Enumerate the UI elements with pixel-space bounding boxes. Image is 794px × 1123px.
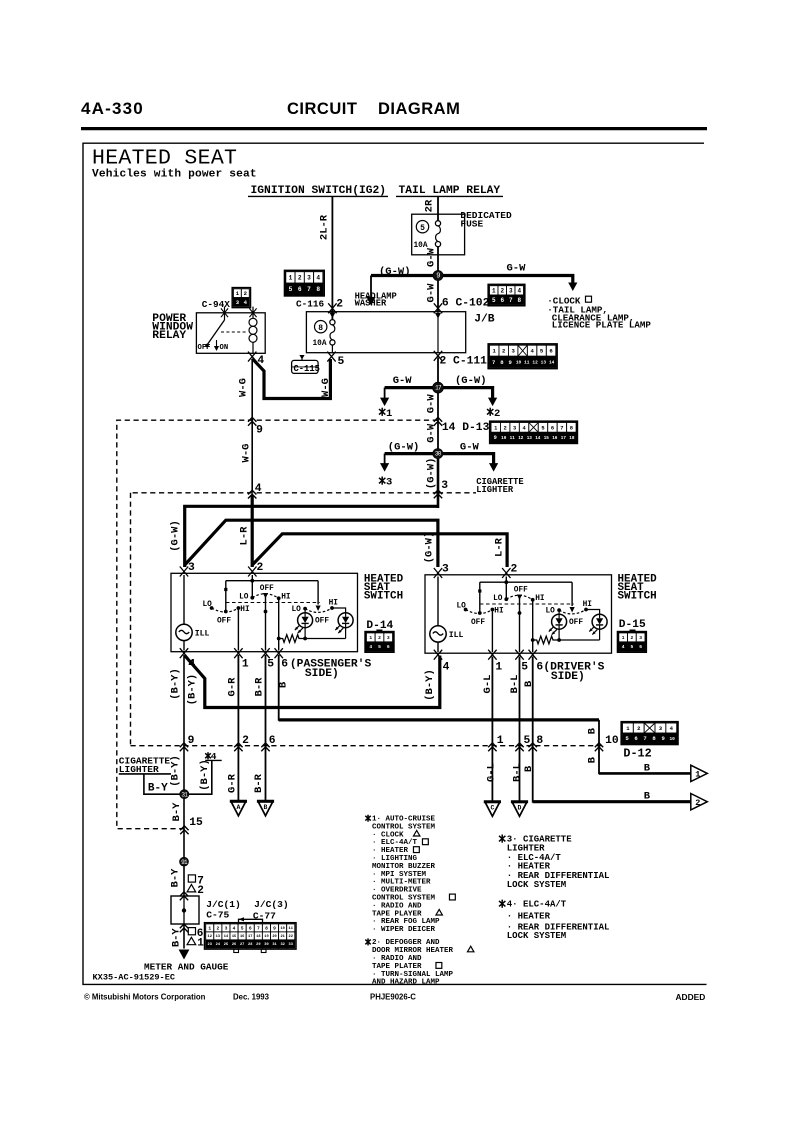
legend column 1 xyxy=(365,815,370,822)
connector C-75/C-77 pin grid xyxy=(205,923,297,949)
node 30 branch left *3 xyxy=(385,452,433,455)
connector D-14 pin grid xyxy=(376,630,382,633)
svg-text:5: 5 xyxy=(289,286,293,293)
svg-text:1: 1 xyxy=(386,408,392,420)
svg-text:15: 15 xyxy=(544,436,550,441)
svg-text:· RADIO AND: · RADIO AND xyxy=(372,955,422,963)
diagram frame xyxy=(83,143,707,984)
wire G-W node17 to node30 xyxy=(437,393,439,449)
svg-text:Vehicles with power seat: Vehicles with power seat xyxy=(92,169,257,181)
svg-text:5: 5 xyxy=(267,659,274,671)
svg-text:2: 2 xyxy=(242,735,249,747)
mark triangle 1 xyxy=(187,937,196,944)
ILL lamp D-14 passenger xyxy=(183,575,185,624)
svg-text:WASHER: WASHER xyxy=(355,299,387,309)
mark triangle 2 xyxy=(187,885,196,892)
fuse 5 circle xyxy=(416,221,428,233)
svg-text:B: B xyxy=(587,756,599,763)
svg-text:D: D xyxy=(518,805,522,812)
wire W-G thick U relay pin4 to J/B pin5 xyxy=(252,359,330,399)
arrow into J/B fuse xyxy=(329,313,335,319)
svg-text:32: 32 xyxy=(280,943,284,947)
svg-text:METER AND GAUGE: METER AND GAUGE xyxy=(144,961,229,972)
svg-text:4A-330: 4A-330 xyxy=(81,99,144,118)
svg-text:1· AUTO-CRUISE: 1· AUTO-CRUISE xyxy=(372,816,436,824)
svg-text:6: 6 xyxy=(500,297,504,304)
svg-text:(B-Y): (B-Y) xyxy=(187,674,199,706)
indicator LED low D-15 driver xyxy=(558,610,560,614)
svg-text:B-R: B-R xyxy=(253,773,265,793)
svg-text:9: 9 xyxy=(273,926,276,932)
ILL lamp D-15 driver xyxy=(437,577,439,626)
svg-text:1: 1 xyxy=(208,926,211,932)
node 91 junction xyxy=(180,857,189,866)
svg-text:10: 10 xyxy=(501,436,507,441)
svg-text:CONTROL SYSTEM: CONTROL SYSTEM xyxy=(372,895,436,903)
svg-text:8: 8 xyxy=(316,286,320,293)
wire B-Y passenger pin4 down xyxy=(183,655,185,790)
svg-text:J/C(1): J/C(1) xyxy=(206,899,241,910)
svg-text:C-116: C-116 xyxy=(296,298,325,309)
svg-text:(B-Y): (B-Y) xyxy=(424,669,436,701)
svg-text:(G-W): (G-W) xyxy=(455,375,487,387)
svg-text:TAPE PLAYER: TAPE PLAYER xyxy=(372,910,422,918)
legend column 2 block *3 xyxy=(499,835,505,843)
svg-text:5: 5 xyxy=(420,224,425,233)
svg-text:MONITOR BUZZER: MONITOR BUZZER xyxy=(372,863,436,871)
node 30 branch right cigarette lighter xyxy=(443,454,494,464)
wire (B-Y) *4 branch to node31 xyxy=(189,760,212,794)
svg-text:© Mitsubishi Motors Corporatio: © Mitsubishi Motors Corporation xyxy=(84,992,206,1001)
svg-text:3: 3 xyxy=(639,635,642,641)
pin 2 D-14 passenger xyxy=(248,567,256,577)
junction block J/B box xyxy=(306,312,465,353)
svg-text:C-77: C-77 xyxy=(253,911,276,922)
fuse element J/B fuse 8 xyxy=(330,320,335,325)
svg-text:G-R: G-R xyxy=(226,677,238,697)
svg-text:OFF: OFF xyxy=(471,619,485,627)
svg-text:· HEATER: · HEATER xyxy=(507,862,551,872)
svg-text:B: B xyxy=(644,791,651,803)
wire G-W left to headlamp washer xyxy=(371,274,433,277)
wire L-R main down to passenger switch xyxy=(251,495,254,567)
svg-text:15: 15 xyxy=(189,817,203,829)
dashed option boundary upper xyxy=(117,420,438,829)
relay coil xyxy=(249,318,257,326)
ground B xyxy=(257,801,274,816)
svg-text:A: A xyxy=(236,804,240,811)
svg-text:4: 4 xyxy=(443,662,450,674)
svg-text:PHJE9026-C: PHJE9026-C xyxy=(370,992,416,1001)
svg-text:11: 11 xyxy=(510,436,516,441)
svg-text:(B-Y): (B-Y) xyxy=(169,668,181,700)
svg-text:D-15: D-15 xyxy=(619,619,646,631)
svg-text:1: 1 xyxy=(695,770,700,780)
svg-text:B-Y: B-Y xyxy=(171,802,183,822)
svg-text:B-L: B-L xyxy=(511,763,523,782)
wire B-Y node91 to J/C xyxy=(183,866,185,896)
svg-text:OFF: OFF xyxy=(260,585,274,593)
switch deck A D-14 passenger xyxy=(225,581,227,611)
svg-text:(G-W): (G-W) xyxy=(169,520,181,552)
svg-text:LICENCE PLATE LAMP: LICENCE PLATE LAMP xyxy=(552,320,652,331)
wire W-G relay output down xyxy=(251,359,253,492)
svg-text:G-W: G-W xyxy=(460,441,480,453)
J/B exit pin 5 xyxy=(327,352,335,362)
svg-text:2R: 2R xyxy=(423,199,435,212)
svg-text:4: 4 xyxy=(316,275,320,282)
svg-text:16: 16 xyxy=(240,935,244,939)
svg-text:G-W: G-W xyxy=(425,283,437,303)
svg-text:10: 10 xyxy=(516,359,522,365)
svg-text:G-L: G-L xyxy=(482,675,494,694)
svg-text:ILL: ILL xyxy=(449,631,464,640)
svg-text:5: 5 xyxy=(378,644,381,650)
svg-text:1: 1 xyxy=(494,425,497,431)
svg-text:1: 1 xyxy=(197,938,204,950)
svg-text:L-R: L-R xyxy=(493,537,505,557)
wire through J/B from C-102 xyxy=(437,312,439,353)
indicator LED high D-15 driver xyxy=(586,610,600,615)
svg-text:4· ELC-4A/T: 4· ELC-4A/T xyxy=(507,900,567,910)
svg-text:5: 5 xyxy=(541,425,544,431)
svg-text:L-R: L-R xyxy=(238,526,250,546)
pin 3 D-14 passenger xyxy=(180,567,188,577)
mechanical link dashed D-15 driver xyxy=(480,603,574,605)
svg-text:LO: LO xyxy=(493,595,503,603)
pin 3 D-15 driver xyxy=(434,568,442,578)
svg-text:OFF: OFF xyxy=(217,617,231,625)
svg-text:Dec. 1993: Dec. 1993 xyxy=(233,992,270,1001)
svg-text:1: 1 xyxy=(242,659,249,671)
svg-text:7: 7 xyxy=(492,359,495,366)
label *2 xyxy=(487,408,493,416)
svg-text:9: 9 xyxy=(188,735,195,747)
svg-text:16: 16 xyxy=(552,436,558,441)
svg-text:HI: HI xyxy=(494,608,504,616)
svg-text:G-L: G-L xyxy=(485,763,497,782)
C-75/C-77 bracket xyxy=(239,919,263,923)
ground C xyxy=(484,802,501,817)
svg-text:J/C(3): J/C(3) xyxy=(254,899,289,910)
bottom pins D-14 passenger xyxy=(180,648,188,658)
svg-text:LO: LO xyxy=(203,601,213,609)
ground A xyxy=(230,801,247,816)
pin 2 D-15 driver xyxy=(502,568,510,578)
svg-text:TAPE PLATER: TAPE PLATER xyxy=(372,963,422,971)
svg-text:18: 18 xyxy=(569,436,575,441)
svg-text:5: 5 xyxy=(524,735,531,747)
connector C-111 pin grid xyxy=(488,344,557,369)
relay actuation dashed link xyxy=(221,331,247,333)
svg-text:W-G: W-G xyxy=(240,444,252,463)
svg-text:HEATED SEAT: HEATED SEAT xyxy=(92,147,237,171)
svg-text:6 C-102: 6 C-102 xyxy=(442,297,490,309)
svg-text:3: 3 xyxy=(307,275,311,282)
svg-text:G-W: G-W xyxy=(393,375,413,387)
svg-text:2: 2 xyxy=(695,798,700,808)
svg-text:RELAY: RELAY xyxy=(152,330,186,342)
svg-text:2: 2 xyxy=(504,425,507,431)
wire G-W node9 to J/B xyxy=(437,281,439,312)
svg-text:· TURN-SIGNAL LAMP: · TURN-SIGNAL LAMP xyxy=(372,971,454,979)
svg-text:26: 26 xyxy=(232,943,236,947)
wire (G-W) node30 down xyxy=(437,459,440,508)
wire G-L driver pin1 to ground xyxy=(491,657,493,801)
svg-text:5: 5 xyxy=(492,297,496,304)
label *4 branch xyxy=(205,752,211,759)
switch deck C lamp selector D-14 passenger xyxy=(317,581,319,605)
svg-text:3: 3 xyxy=(225,926,228,932)
internal supply rail D-15 driver xyxy=(480,581,572,583)
svg-text:8: 8 xyxy=(265,926,268,932)
svg-text:HI: HI xyxy=(583,601,593,609)
svg-text:1: 1 xyxy=(622,635,625,641)
wire B-Y J/C to meter xyxy=(183,924,185,949)
internal supply rail D-14 passenger xyxy=(226,580,318,582)
svg-text:4: 4 xyxy=(622,644,625,650)
svg-text:7: 7 xyxy=(307,286,311,293)
svg-text:LIGHTER: LIGHTER xyxy=(507,843,545,853)
svg-text:10: 10 xyxy=(605,735,619,747)
svg-text:· LIGHTING: · LIGHTING xyxy=(372,855,418,863)
svg-text:ON: ON xyxy=(220,344,229,352)
svg-text:CIRCUIT: CIRCUIT xyxy=(287,100,357,118)
svg-text:B-R: B-R xyxy=(253,677,265,697)
connector D-12 pin grid xyxy=(621,722,678,745)
svg-text:22: 22 xyxy=(289,935,293,939)
wire B-Y node31 down xyxy=(183,799,185,858)
svg-text:2: 2 xyxy=(494,408,500,420)
svg-text:B-L: B-L xyxy=(509,675,521,694)
svg-text:6: 6 xyxy=(269,735,276,747)
dashed option boundary lower xyxy=(131,745,604,747)
J/B exit pin 2 C-111 xyxy=(434,351,442,361)
svg-text:KX35-AC-91529-EC: KX35-AC-91529-EC xyxy=(93,973,176,983)
svg-text:6: 6 xyxy=(281,659,288,671)
svg-text:3: 3 xyxy=(509,288,513,295)
svg-text:6: 6 xyxy=(536,662,543,674)
svg-text:1: 1 xyxy=(495,662,502,674)
svg-text:B-Y: B-Y xyxy=(169,868,181,888)
junction block J/C box xyxy=(171,896,199,924)
svg-text:C-94X: C-94X xyxy=(202,299,231,310)
svg-text:8: 8 xyxy=(536,735,543,747)
svg-text:OFF: OFF xyxy=(198,344,211,352)
switch deck C lamp selector D-15 driver xyxy=(571,582,573,606)
svg-text:3: 3 xyxy=(188,562,195,574)
svg-text:14: 14 xyxy=(535,436,541,441)
svg-text:5: 5 xyxy=(631,644,634,650)
svg-text:OFF: OFF xyxy=(514,587,528,595)
svg-text:6: 6 xyxy=(249,926,252,932)
svg-text:4: 4 xyxy=(233,926,236,932)
mark square 7 xyxy=(188,875,195,882)
ground D xyxy=(511,802,528,817)
connector C-94X pin grid xyxy=(232,288,250,308)
indicator LED high D-14 passenger xyxy=(332,608,346,613)
svg-text:1: 1 xyxy=(289,275,293,282)
svg-text:2: 2 xyxy=(216,926,219,932)
svg-text:(G-W): (G-W) xyxy=(426,458,438,490)
svg-text:4: 4 xyxy=(188,659,195,671)
svg-text:10: 10 xyxy=(669,736,675,742)
svg-text:G-W: G-W xyxy=(425,423,437,443)
dashed crossing chevrons lower xyxy=(180,743,188,751)
svg-text:· MULTI-METER: · MULTI-METER xyxy=(372,879,431,887)
connector C-115 xyxy=(301,356,303,360)
svg-text:LOCK SYSTEM: LOCK SYSTEM xyxy=(507,931,566,941)
svg-text:LO: LO xyxy=(457,602,467,610)
svg-text:11: 11 xyxy=(524,359,530,365)
svg-text:20: 20 xyxy=(272,935,276,939)
svg-text:1: 1 xyxy=(497,735,504,747)
wire G-W J/B to node 17 xyxy=(437,358,439,383)
svg-text:B: B xyxy=(523,680,535,687)
legend column 1 block 2 xyxy=(365,938,370,945)
wire B-Y link both pin4 xyxy=(185,656,440,708)
svg-text:OFF: OFF xyxy=(315,617,329,625)
header rule xyxy=(81,127,707,130)
wire B D-12 feed down xyxy=(599,720,691,774)
svg-text:3: 3 xyxy=(441,480,448,492)
svg-text:LO: LO xyxy=(546,608,556,616)
wire G-R passenger pin1 to ground xyxy=(237,655,239,800)
svg-text:B: B xyxy=(277,681,289,688)
svg-text:OFF: OFF xyxy=(569,619,583,627)
svg-text:7: 7 xyxy=(560,425,563,431)
svg-text:13: 13 xyxy=(527,436,533,441)
label *3 xyxy=(379,477,385,485)
svg-text:IGNITION SWITCH(IG2): IGNITION SWITCH(IG2) xyxy=(251,185,387,197)
svg-text:17: 17 xyxy=(561,436,567,441)
svg-text:19: 19 xyxy=(264,935,268,939)
bottom pins D-15 driver xyxy=(434,650,442,660)
svg-text:TAIL LAMP RELAY: TAIL LAMP RELAY xyxy=(399,185,501,197)
wire 2L-R ignition feed xyxy=(331,196,333,319)
connector C-102 pin grid xyxy=(488,285,524,306)
svg-text:· HEATER: · HEATER xyxy=(372,847,409,855)
svg-text:2· DEFOGGER AND: 2· DEFOGGER AND xyxy=(372,939,440,947)
svg-text:B: B xyxy=(644,762,651,774)
resistor D-14 passenger xyxy=(279,635,346,643)
svg-text:9: 9 xyxy=(436,273,440,281)
svg-text:LO: LO xyxy=(239,593,249,601)
svg-text:HI: HI xyxy=(281,593,291,601)
svg-text:· ELC-4A/T: · ELC-4A/T xyxy=(372,839,418,847)
svg-text:3: 3 xyxy=(387,635,390,641)
connector C-102 crossing xyxy=(434,303,442,313)
svg-text:12: 12 xyxy=(208,935,212,939)
svg-text:C-115: C-115 xyxy=(294,364,320,374)
svg-text:8: 8 xyxy=(517,297,521,304)
relay contact arm xyxy=(224,316,226,320)
connector D-13 pin grid xyxy=(490,421,578,443)
svg-text:15: 15 xyxy=(232,935,236,939)
indicator LED low D-14 passenger xyxy=(304,609,306,613)
node 17 branch right *2 xyxy=(443,388,493,399)
wire B-R passenger pin5 to ground xyxy=(265,655,267,800)
svg-text:W-G: W-G xyxy=(237,378,249,397)
svg-text:ILL: ILL xyxy=(195,629,210,638)
svg-text:DOOR MIRROR HEATER: DOOR MIRROR HEATER xyxy=(372,947,454,955)
wire B driver pin6 to rear arrow xyxy=(533,657,691,802)
svg-text:ADDED: ADDED xyxy=(676,992,706,1002)
power window relay box xyxy=(196,313,265,354)
C-75/C-77 tabs xyxy=(234,949,239,952)
heated seat switch box D-14 passenger xyxy=(171,573,358,651)
svg-text:2 C-111: 2 C-111 xyxy=(440,356,488,368)
svg-text:17: 17 xyxy=(248,935,252,939)
svg-text:W-G: W-G xyxy=(320,378,332,397)
svg-text:13: 13 xyxy=(541,359,547,365)
svg-text:2L-R: 2L-R xyxy=(318,214,330,240)
svg-text:3: 3 xyxy=(386,477,392,489)
svg-text:7: 7 xyxy=(509,297,513,304)
svg-text:12: 12 xyxy=(532,359,538,365)
svg-text:SIDE): SIDE) xyxy=(551,671,585,683)
svg-text:SWITCH: SWITCH xyxy=(618,591,657,603)
svg-text:B: B xyxy=(587,727,599,734)
svg-text:7: 7 xyxy=(643,735,646,742)
svg-text:6: 6 xyxy=(639,644,642,650)
svg-text:G-W: G-W xyxy=(425,394,437,414)
mechanical link dashed D-14 passenger xyxy=(226,602,320,604)
svg-text:B: B xyxy=(264,804,268,811)
svg-text:AND HAZARD LAMP: AND HAZARD LAMP xyxy=(372,979,440,987)
svg-text:FUSE: FUSE xyxy=(460,219,483,230)
svg-text:· HEATER: · HEATER xyxy=(507,912,551,922)
svg-text:2: 2 xyxy=(631,635,634,641)
arrow to meter and gauge xyxy=(179,950,190,960)
svg-text:14: 14 xyxy=(549,359,555,365)
svg-text:HI: HI xyxy=(535,595,545,603)
svg-text:J/B: J/B xyxy=(474,313,495,325)
svg-text:4: 4 xyxy=(517,288,521,295)
svg-text:B: B xyxy=(523,765,535,772)
svg-text:3: 3 xyxy=(513,425,516,431)
svg-text:1: 1 xyxy=(492,288,496,295)
svg-text:(G-W): (G-W) xyxy=(388,441,420,453)
svg-text:5: 5 xyxy=(521,662,528,674)
svg-text:D-12: D-12 xyxy=(623,747,651,761)
svg-text:30: 30 xyxy=(264,943,268,947)
svg-text:· REAR FOG LAMP: · REAR FOG LAMP xyxy=(372,918,440,926)
wire G-W right to clock/tail lamps xyxy=(443,276,573,284)
svg-text:G-W: G-W xyxy=(507,263,527,275)
svg-text:5: 5 xyxy=(338,356,345,368)
wire B passenger pin6 to D-12 bus xyxy=(279,655,599,720)
svg-text:2: 2 xyxy=(257,562,264,574)
svg-text:8: 8 xyxy=(570,425,573,431)
svg-text:18: 18 xyxy=(256,935,260,939)
svg-text:HI: HI xyxy=(329,600,339,608)
svg-text:SWITCH: SWITCH xyxy=(364,591,403,603)
bus A (G-W) to passenger switch pin3 xyxy=(185,506,438,567)
svg-text:2: 2 xyxy=(336,298,343,310)
svg-text:8: 8 xyxy=(318,324,323,333)
svg-text:3: 3 xyxy=(442,564,449,576)
mark square 6 xyxy=(188,928,195,935)
svg-text:6: 6 xyxy=(387,644,390,650)
svg-text:· WIPER DEICER: · WIPER DEICER xyxy=(372,926,436,934)
svg-text:2: 2 xyxy=(378,635,381,641)
wire B-Y cigarette lighter to node31 xyxy=(144,774,180,794)
dedicated fuse box xyxy=(412,214,465,255)
svg-text:2: 2 xyxy=(298,275,302,282)
svg-text:7: 7 xyxy=(257,926,260,932)
svg-text:5: 5 xyxy=(241,926,244,932)
